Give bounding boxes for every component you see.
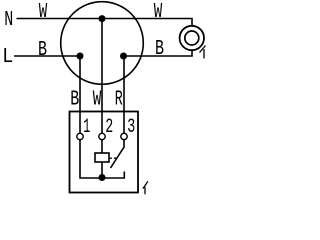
svg-text:B: B bbox=[70, 89, 79, 112]
svg-text:3: 3 bbox=[127, 116, 135, 139]
label イ (switch) bbox=[143, 181, 148, 194]
pilot lamp (position indicator) bbox=[95, 153, 109, 162]
wire: pilot lamp down to common node bbox=[101, 162, 103, 178]
lamp receptacle イ: inner circle bbox=[185, 31, 199, 45]
lamp receptacle イ: outer circle bbox=[180, 26, 204, 50]
svg-text:1: 1 bbox=[83, 116, 90, 139]
mechanical link (dashed) between pilot lamp and blade bbox=[109, 157, 117, 159]
label イ (lamp) bbox=[200, 46, 206, 59]
wire: terminal 1 lead down and along bottom, up to fixed contact bbox=[80, 140, 124, 178]
node: neutral junction dot bbox=[99, 15, 106, 22]
terminal 2 circle bbox=[99, 133, 105, 139]
svg-text:R: R bbox=[115, 89, 123, 112]
node: common junction dot inside switch bbox=[99, 174, 106, 181]
wire: B down from live node to switch terminal 1 bbox=[79, 56, 81, 133]
svg-text:W: W bbox=[93, 89, 102, 112]
wire: R down from return node to switch terminal 3 bbox=[123, 56, 125, 133]
svg-text:N: N bbox=[4, 9, 13, 32]
wire: live from L to junction node bbox=[14, 55, 80, 57]
junction box (outlet box circle) bbox=[61, 2, 144, 85]
node: switched-return junction dot bbox=[120, 53, 127, 60]
wire: terminal 3 lead bbox=[123, 140, 125, 147]
svg-text:2: 2 bbox=[105, 116, 113, 139]
svg-text:L: L bbox=[2, 46, 13, 69]
switch blade (open) bbox=[111, 146, 125, 168]
terminal 3 circle bbox=[121, 133, 127, 139]
wire: from return node right to lamp bottom, jog up bbox=[124, 50, 193, 56]
node: live junction dot bbox=[77, 53, 84, 60]
wire: neutral from N through junction box to lamp, turning down at right bbox=[17, 19, 193, 26]
svg-text:B: B bbox=[38, 39, 47, 62]
wire: terminal 2 lead down to pilot lamp bbox=[101, 140, 103, 153]
svg-text:W: W bbox=[154, 1, 163, 24]
wire: W down from neutral node to switch terminal 2 bbox=[101, 19, 103, 134]
svg-text:B: B bbox=[155, 38, 164, 61]
terminal 1 circle bbox=[77, 133, 83, 139]
svg-text:W: W bbox=[39, 1, 48, 24]
switch unit box bbox=[70, 112, 139, 193]
